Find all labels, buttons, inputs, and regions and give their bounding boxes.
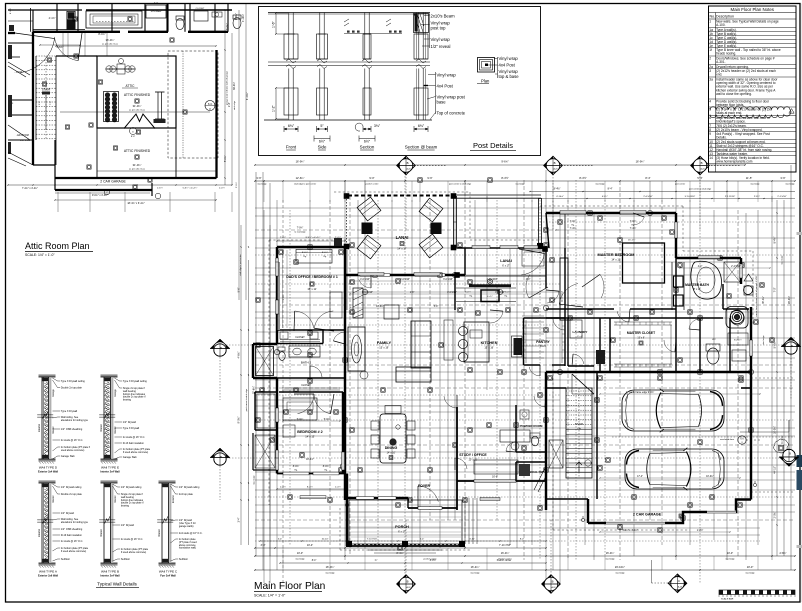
svg-text:Garage: Garage: [114, 388, 117, 396]
svg-text:7'-4¾": 7'-4¾": [280, 236, 286, 239]
svg-text:8'-4½": 8'-4½": [773, 236, 777, 243]
svg-text:www.homereplansite.com: www.homereplansite.com: [716, 160, 753, 164]
svg-text:11'-5": 11'-5": [746, 176, 752, 180]
svg-text:Double 2x top plate: Double 2x top plate: [61, 493, 83, 496]
svg-text:31'-0¾": 31'-0¾": [133, 104, 142, 108]
svg-text:WAll TYPE B: WAll TYPE B: [101, 570, 119, 574]
svg-text:Exterior: Exterior: [172, 495, 175, 503]
svg-text:16'-0¾": 16'-0¾": [606, 552, 615, 555]
svg-text:5'-0¾": 5'-0¾": [324, 418, 331, 421]
svg-text:10'-4⅞": 10'-4⅞": [306, 458, 314, 461]
svg-text:1/2" reveal: 1/2" reveal: [431, 44, 451, 49]
svg-text:8'-4½": 8'-4½": [501, 176, 508, 180]
svg-text:WC: WC: [712, 339, 716, 341]
svg-text:CLOSET: CLOSET: [196, 8, 205, 10]
svg-text:Interior: Interior: [52, 426, 55, 433]
svg-text:6' x 6': 6' x 6': [577, 336, 583, 338]
svg-text:CLOSET: CLOSET: [301, 384, 311, 387]
svg-text:stud edge: stud edge: [253, 475, 256, 485]
svg-text:Interior: Interior: [114, 495, 117, 502]
svg-text:post top: post top: [431, 26, 447, 31]
svg-text:Exterior: Exterior: [38, 424, 41, 432]
svg-text:16'-0¾": 16'-0¾": [774, 426, 777, 434]
svg-text:WAll TYPE A: WAll TYPE A: [39, 570, 58, 574]
svg-text:7'-10 7/16": 7'-10 7/16": [499, 544, 511, 547]
svg-text:stud edge: stud edge: [781, 255, 784, 265]
svg-text:WAll TYPE E: WAll TYPE E: [101, 466, 119, 470]
svg-text:10'-0": 10'-0": [747, 565, 754, 569]
svg-text:14' x 13': 14' x 13': [611, 259, 621, 262]
svg-text:8'-0¾": 8'-0¾": [293, 465, 300, 468]
svg-text:Furr 2x4 Wall: Furr 2x4 Wall: [160, 575, 176, 578]
svg-text:STAIR: STAIR: [575, 422, 583, 426]
svg-text:Double 2x top plate: Double 2x top plate: [61, 387, 83, 390]
svg-text:Type X Drywall ceiling: Type X Drywall ceiling: [61, 380, 85, 383]
svg-text:Rg.: Rg.: [470, 296, 473, 298]
svg-text:8'-4½": 8'-4½": [579, 176, 586, 180]
svg-text:1/2" Drywall ceiling: 1/2" Drywall ceiling: [61, 486, 82, 489]
svg-text:36'-0¾": 36'-0¾": [106, 38, 115, 42]
svg-text:6' x 6': 6' x 6': [540, 345, 547, 348]
svg-text:8'-0¾": 8'-0¾": [323, 465, 330, 468]
svg-text:Garage Slab: Garage Slab: [61, 455, 75, 458]
svg-text:4'-0 9/16": 4'-0 9/16": [360, 279, 370, 281]
svg-text:SCALE BAR: SCALE BAR: [721, 598, 734, 601]
svg-text:1f: 1f: [709, 48, 712, 52]
svg-text:6⅛": 6⅛": [418, 124, 425, 128]
svg-text:8'-0¾": 8'-0¾": [98, 32, 105, 36]
svg-text:14' x 10': 14' x 10': [387, 452, 396, 455]
svg-text:B: B: [407, 580, 409, 584]
svg-text:6'-4¾": 6'-4¾": [487, 295, 493, 298]
svg-text:stud edge: stud edge: [595, 183, 605, 186]
svg-text:Vinyl wrap: Vinyl wrap: [431, 37, 451, 42]
svg-text:3'-0": 3'-0": [154, 3, 159, 5]
svg-text:A-20: A-20: [554, 168, 558, 171]
svg-text:1/2" OSB sheathing: 1/2" OSB sheathing: [61, 428, 83, 431]
svg-text:stud edge: stud edge: [233, 100, 236, 110]
svg-text:8'-4": 8'-4": [608, 188, 613, 191]
svg-text:Rg.: Rg.: [323, 256, 327, 258]
svg-text:POWDER ROOM: POWDER ROOM: [520, 424, 543, 428]
svg-text:4'-0 9/16": 4'-0 9/16": [363, 292, 373, 294]
svg-text:2x studs @ 16" O.C.: 2x studs @ 16" O.C.: [121, 538, 143, 541]
svg-text:..ED ROOM: ..ED ROOM: [16, 134, 29, 137]
svg-text:6'-4¾": 6'-4¾": [505, 291, 511, 294]
svg-text:13'-6¾": 13'-6¾": [376, 305, 384, 308]
svg-text:BATH 2: BATH 2: [301, 361, 312, 365]
svg-text:15' x 11': 15' x 11': [307, 287, 317, 291]
svg-text:14: 14: [709, 156, 713, 160]
svg-text:B: B: [220, 346, 222, 350]
svg-text:8'-0": 8'-0": [131, 136, 136, 138]
svg-text:5'-0": 5'-0": [434, 306, 439, 308]
svg-text:4'-0 9/16": 4'-0 9/16": [400, 279, 410, 281]
svg-text:Rg.: Rg.: [324, 470, 328, 472]
svg-text:SCALE: 1/4" = 1'-0": SCALE: 1/4" = 1'-0": [254, 594, 286, 598]
svg-text:9'-0¾": 9'-0¾": [282, 294, 285, 300]
svg-text:garage walls): garage walls): [179, 525, 194, 528]
svg-text:2x studs @ 16" O.C.: 2x studs @ 16" O.C.: [61, 439, 83, 442]
svg-text:16'-1¾": 16'-1¾": [628, 239, 636, 242]
svg-text:stud edge to post center: stud edge to post center: [294, 183, 317, 186]
svg-text:...OOM: ...OOM: [14, 71, 22, 74]
svg-text:4'-0": 4'-0": [526, 279, 531, 281]
svg-text:6⅛": 6⅛": [288, 124, 295, 128]
svg-text:2x10's Beam: 2x10's Beam: [431, 14, 456, 19]
svg-text:B: B: [407, 161, 409, 165]
svg-text:1'-4¾": 1'-4¾": [335, 486, 341, 489]
svg-text:1'-2": 1'-2": [272, 104, 276, 112]
svg-text:wall to close the opening.: wall to close the opening.: [716, 92, 752, 96]
svg-text:8'-0¾": 8'-0¾": [235, 13, 238, 20]
svg-text:(2) 2x12's header on (2) 2x4 s: (2) 2x12's header on (2) 2x4 studs at ea…: [716, 69, 776, 73]
svg-text:5'-0¾": 5'-0¾": [224, 155, 227, 162]
svg-text:stud edge: stud edge: [605, 558, 615, 561]
svg-text:Garage Slab: Garage Slab: [123, 456, 137, 459]
svg-text:10'-0": 10'-0": [297, 552, 303, 555]
svg-text:5'-6¾" x 4'-4¾": 5'-6¾" x 4'-4¾": [183, 187, 198, 190]
svg-text:10'-0": 10'-0": [727, 552, 733, 555]
svg-text:as per attic truss: as per attic truss: [102, 43, 119, 46]
svg-text:stud edge: stud edge: [725, 558, 735, 561]
svg-text:stud edge: stud edge: [470, 572, 480, 575]
svg-text:B: B: [791, 344, 793, 348]
svg-text:alterations for siding type: alterations for siding type: [61, 419, 89, 422]
svg-text:stud edge to post center: stud edge to post center: [239, 254, 242, 276]
svg-text:4'-1⅞": 4'-1⅞": [9, 8, 12, 14]
svg-text:ATTIC: ATTIC: [126, 84, 136, 88]
svg-text:4x4 Post: 4x4 Post: [437, 84, 454, 89]
svg-text:WAll TYPE D: WAll TYPE D: [39, 466, 58, 470]
svg-text:7'-0¾": 7'-0¾": [570, 220, 577, 223]
svg-text:studs at each end.: studs at each end.: [716, 111, 742, 115]
svg-text:A-20: A-20: [552, 586, 556, 589]
svg-text:3: 3: [709, 69, 711, 73]
svg-text:Interior 2x4 Wall: Interior 2x4 Wall: [100, 471, 120, 474]
svg-text:A-100.: A-100.: [716, 23, 726, 27]
svg-text:4'-0": 4'-0": [698, 266, 703, 268]
svg-text:2x4 top plate: 2x4 top plate: [179, 493, 194, 496]
svg-text:Exterior: Exterior: [38, 529, 41, 537]
svg-text:post corner to stud edge: post corner to stud edge: [245, 388, 248, 411]
svg-text:to stud edge: to stud edge: [294, 231, 306, 234]
svg-text:No.: No.: [710, 15, 716, 19]
svg-text:8'-0¾": 8'-0¾": [322, 251, 328, 254]
svg-text:4: 4: [709, 99, 711, 103]
svg-text:18'-4¾" x 6'-4¾": 18'-4¾" x 6'-4¾": [127, 202, 145, 205]
svg-text:16'-0¾": 16'-0¾": [501, 552, 510, 555]
svg-text:Type X Drywall: Type X Drywall: [123, 427, 140, 430]
svg-text:B: B: [554, 161, 556, 165]
svg-text:4'-10¾": 4'-10¾": [242, 14, 245, 22]
svg-text:2'-0 5/16": 2'-0 5/16": [643, 196, 652, 198]
svg-text:post center to stud edge: post center to stud edge: [449, 183, 472, 186]
svg-text:36'-0¾": 36'-0¾": [233, 82, 236, 90]
svg-text:Interior: Interior: [52, 495, 55, 502]
svg-text:1/2" OSB sheathing: 1/2" OSB sheathing: [61, 528, 83, 531]
svg-text:9'-6": 9'-6": [427, 176, 432, 180]
svg-text:DINING: DINING: [385, 446, 398, 450]
svg-text:Rg.: Rg.: [294, 470, 298, 472]
svg-text:Exterior 2x4 Wall: Exterior 2x4 Wall: [38, 471, 58, 474]
svg-text:14' x 13': 14' x 13': [305, 435, 315, 439]
svg-text:1'-4¾": 1'-4¾": [280, 486, 286, 489]
svg-text:Rg.: Rg.: [303, 256, 307, 258]
svg-text:9'-4": 9'-4": [229, 102, 231, 107]
svg-text:LAUNDRY: LAUNDRY: [572, 330, 588, 334]
svg-text:as per attic truss: as per attic truss: [129, 109, 146, 112]
svg-text:4'-10⅞": 4'-10⅞": [556, 195, 564, 198]
svg-text:Interior 2x4 Wall: Interior 2x4 Wall: [100, 575, 120, 578]
svg-text:1/2" Drywall: 1/2" Drywall: [121, 524, 134, 527]
svg-text:1'-3": 1'-3": [410, 292, 415, 294]
svg-text:Section: Section: [360, 145, 375, 150]
svg-text:A-20: A-20: [701, 168, 705, 171]
svg-text:Post Details: Post Details: [473, 141, 513, 150]
svg-text:4'-6¾": 4'-6¾": [238, 351, 241, 358]
svg-text:2 CAR GARAGE: 2 CAR GARAGE: [633, 513, 662, 517]
svg-text:stud edge: stud edge: [325, 572, 335, 575]
svg-text:A-20: A-20: [678, 585, 682, 588]
svg-text:Interior: Interior: [158, 529, 161, 537]
svg-text:12'-6¾": 12'-6¾": [296, 176, 305, 180]
svg-text:5'-6": 5'-6": [238, 287, 241, 292]
svg-text:4'-10": 4'-10": [469, 538, 475, 540]
svg-text:corner door to frame walls of: corner door to frame walls of garage: [755, 282, 758, 316]
svg-text:8'-4¾" x 4'-4¾": 8'-4¾" x 4'-4¾": [306, 236, 321, 239]
svg-text:Subfloor: Subfloor: [61, 558, 70, 561]
svg-text:Front: Front: [286, 145, 297, 150]
svg-text:4'-4⅞": 4'-4⅞": [49, 17, 56, 20]
svg-text:Section @ beam: Section @ beam: [405, 145, 438, 150]
svg-text:Linen closet: Linen closet: [561, 290, 564, 302]
svg-text:2: 2: [709, 56, 711, 60]
svg-text:stud edge: stud edge: [762, 335, 765, 345]
svg-text:top & base: top & base: [499, 74, 520, 79]
svg-text:Description: Description: [716, 15, 734, 19]
svg-text:Exterior 2x6 Wall: Exterior 2x6 Wall: [38, 575, 58, 578]
svg-text:16'-9¾": 16'-9¾": [296, 160, 305, 164]
svg-text:if used above concrete): if used above concrete): [61, 550, 87, 553]
svg-text:garage door to frame walls of: garage door to frame walls of garage: [226, 70, 229, 105]
svg-text:stud edge: stud edge: [257, 183, 267, 186]
svg-text:8'-4¾": 8'-4¾": [307, 486, 313, 489]
svg-text:SHOWER: SHOWER: [151, 10, 162, 13]
svg-text:MASTER CLOSET: MASTER CLOSET: [627, 331, 655, 335]
svg-text:B: B: [220, 455, 222, 459]
svg-text:Rg.: Rg.: [571, 225, 575, 227]
svg-text:alterations for siding type: alterations for siding type: [61, 521, 89, 524]
svg-text:STAIR: STAIR: [42, 88, 51, 92]
svg-text:10'-4": 10'-4": [307, 544, 313, 547]
svg-text:1'-0": 1'-0": [39, 101, 41, 106]
svg-text:BEDROOM # 2: BEDROOM # 2: [297, 430, 322, 434]
svg-text:7'-0¾": 7'-0¾": [297, 227, 304, 230]
svg-text:6⅞: 6⅞: [208, 102, 213, 106]
svg-text:15' x 19': 15' x 19': [379, 346, 389, 350]
svg-text:B: B: [789, 452, 791, 456]
svg-text:Interior: Interior: [100, 424, 103, 432]
svg-text:3'-0 9/16": 3'-0 9/16": [443, 279, 453, 281]
svg-text:2'-8¾": 2'-8¾": [754, 195, 760, 198]
svg-text:1/2" Drywall: 1/2" Drywall: [61, 512, 74, 515]
svg-text:STUDY / OFFICE: STUDY / OFFICE: [459, 453, 487, 457]
svg-text:4'-10 3/16": 4'-10 3/16": [487, 279, 498, 281]
svg-text:2'-0¾": 2'-0¾": [235, 182, 238, 188]
svg-text:6' x 17': 6' x 17': [502, 265, 510, 268]
svg-text:SCALE: 1/4" = 1'-0": SCALE: 1/4" = 1'-0": [25, 253, 55, 257]
svg-text:overhead door: overhead door: [720, 438, 734, 441]
svg-text:8'-0¾": 8'-0¾": [302, 251, 308, 254]
svg-text:Garage: Garage: [52, 388, 55, 396]
svg-text:post center: post center: [675, 183, 686, 186]
svg-text:Post/c’l corner: Post/c’l corner: [497, 559, 512, 562]
svg-text:A-20: A-20: [407, 586, 411, 589]
svg-text:A-301.: A-301.: [716, 60, 726, 64]
svg-text:base: base: [437, 100, 447, 105]
svg-text:1 - car to frame edge 9'-0¾": 1 - car to frame edge 9'-0¾": [626, 391, 655, 394]
svg-text:7'-4¾": 7'-4¾": [570, 227, 577, 230]
svg-text:3'-6 3/16": 3'-6 3/16": [495, 292, 505, 294]
svg-text:6'-0¾": 6'-0¾": [226, 23, 229, 30]
svg-text:Subfloor: Subfloor: [179, 558, 188, 561]
svg-text:16'-0": 16'-0": [492, 477, 498, 479]
svg-text:10'-10": 10'-10": [322, 538, 329, 540]
svg-text:8'-4¾": 8'-4¾": [396, 552, 403, 555]
svg-text:Side: Side: [318, 145, 327, 150]
svg-text:4x4 Post: 4x4 Post: [499, 63, 516, 68]
svg-text:5'-4¾": 5'-4¾": [774, 341, 777, 348]
svg-text:treads nosing.: treads nosing.: [716, 52, 736, 56]
svg-text:FAMILY: FAMILY: [377, 340, 392, 345]
svg-text:7'-0": 7'-0": [50, 101, 52, 106]
svg-text:2 CAR GARAGE: 2 CAR GARAGE: [100, 180, 126, 184]
svg-text:R-19 batt insulation: R-19 batt insulation: [61, 534, 83, 537]
svg-text:post center to stud edge: post center to stud edge: [689, 188, 712, 191]
svg-text:B: B: [552, 580, 554, 584]
svg-text:1/2" Drywall ceiling: 1/2" Drywall ceiling: [121, 486, 142, 489]
svg-text:ATTIC FINISHED: ATTIC FINISHED: [124, 93, 151, 97]
svg-text:PANTRY: PANTRY: [536, 340, 550, 344]
svg-text:R-13 batt insulation: R-13 batt insulation: [123, 442, 145, 445]
svg-text:1/2" Drywall ceiling: 1/2" Drywall ceiling: [179, 486, 200, 489]
svg-text:2'-0¾": 2'-0¾": [774, 511, 777, 518]
svg-text:stud edge: stud edge: [295, 558, 305, 561]
svg-text:LANAI: LANAI: [396, 235, 409, 240]
svg-text:20'-10¾": 20'-10¾": [615, 565, 625, 569]
svg-text:¾": ¾": [375, 559, 378, 562]
svg-text:2'-8¾": 2'-8¾": [779, 552, 786, 555]
svg-text:stud edge: stud edge: [615, 572, 625, 575]
svg-text:8'-4½": 8'-4½": [554, 187, 561, 191]
svg-text:Rg.: Rg.: [505, 296, 508, 298]
svg-text:4'-6¾": 4'-6¾": [56, 45, 63, 49]
svg-text:28'-0¾": 28'-0¾": [788, 296, 791, 304]
svg-text:as per attic truss: as per attic truss: [129, 168, 146, 171]
svg-text:1/2" Drywall: 1/2" Drywall: [123, 421, 136, 424]
svg-text:17'-4": 17'-4": [637, 476, 643, 478]
svg-text:10'-0¾": 10'-0¾": [706, 475, 714, 478]
svg-text:4'-0 9/16": 4'-0 9/16": [447, 292, 457, 294]
svg-text:stud edge: stud edge: [785, 183, 795, 186]
svg-text:stud edge: stud edge: [781, 435, 784, 445]
svg-text:3⅛": 3⅛": [374, 124, 381, 128]
svg-text:9'-6¾": 9'-6¾": [501, 160, 508, 164]
svg-text:1'-6¾": 1'-6¾": [157, 187, 163, 190]
svg-text:bearing: bearing: [121, 505, 130, 508]
svg-text:Attic Room Plan: Attic Room Plan: [25, 241, 90, 251]
svg-text:Main Floor Plan Notes: Main Floor Plan Notes: [731, 7, 775, 12]
svg-text:7'-4¾": 7'-4¾": [630, 227, 637, 230]
svg-text:ATTIC FINISHED: ATTIC FINISHED: [124, 149, 151, 153]
svg-text:DAD'S OFFICE / BEDROOM # 1: DAD'S OFFICE / BEDROOM # 1: [286, 275, 338, 279]
svg-text:6⅞: 6⅞: [740, 437, 743, 440]
svg-text:16'-4¾": 16'-4¾": [471, 565, 480, 569]
svg-text:end.: end.: [716, 73, 722, 77]
svg-text:3'-4": 3'-4": [238, 517, 241, 522]
svg-text:CLOSET: CLOSET: [295, 336, 305, 339]
svg-text:1'-6": 1'-6": [272, 20, 276, 28]
svg-text:Main Floor Plan: Main Floor Plan: [254, 581, 325, 592]
svg-text:if used above concrete): if used above concrete): [121, 551, 147, 554]
svg-text:6'-4¾": 6'-4¾": [465, 291, 471, 294]
svg-text:2'-4 5/16": 2'-4 5/16": [731, 266, 741, 268]
svg-text:9: 9: [709, 132, 711, 136]
svg-text:Subfloor: Subfloor: [121, 558, 130, 561]
svg-text:6½": 6½": [319, 139, 326, 143]
svg-text:7'-10 7/16": 7'-10 7/16": [367, 538, 378, 540]
svg-text:if used above concrete): if used above concrete): [123, 451, 149, 454]
svg-text:9'-0": 9'-0": [369, 176, 374, 180]
svg-text:44'-10": 44'-10": [774, 466, 777, 474]
svg-text:8'-4": 8'-4": [312, 560, 317, 562]
svg-text:1'-0¾": 1'-0¾": [219, 187, 225, 190]
svg-text:Typical Wall Details: Typical Wall Details: [97, 582, 137, 587]
svg-text:8'-4": 8'-4": [645, 176, 650, 180]
svg-text:5'-2¾" x 4'-4¾": 5'-2¾" x 4'-4¾": [622, 529, 638, 532]
svg-text:Interior: Interior: [114, 426, 117, 433]
svg-text:7'-0¾": 7'-0¾": [630, 220, 637, 223]
svg-text:LANAI: LANAI: [500, 259, 512, 263]
svg-text:2x studs @ 16" O.C.: 2x studs @ 16" O.C.: [123, 436, 145, 439]
svg-text:6½": 6½": [364, 139, 371, 143]
svg-text:7'-0": 7'-0": [774, 287, 777, 292]
svg-text:8'-0": 8'-0": [520, 538, 525, 540]
svg-text:Vinyl wrap: Vinyl wrap: [437, 73, 457, 78]
svg-text:Vinyl wrap: Vinyl wrap: [499, 56, 519, 61]
svg-text:31'-0¾": 31'-0¾": [133, 163, 142, 167]
svg-text:3a: 3a: [709, 77, 713, 81]
svg-text:B: B: [701, 161, 703, 165]
svg-text:used above concrete): used above concrete): [61, 449, 85, 452]
svg-text:A-20: A-20: [407, 168, 411, 171]
svg-text:14' x 17': 14' x 17': [397, 247, 407, 251]
svg-text:MASTER BEDROOM: MASTER BEDROOM: [598, 253, 635, 257]
svg-text:bearing: bearing: [123, 399, 132, 402]
svg-text:stud edge: stud edge: [745, 572, 755, 575]
svg-text:2'-1 11/16": 2'-1 11/16": [725, 196, 735, 198]
svg-text:8'x4'-6¾": 8'x4'-6¾": [734, 339, 742, 342]
svg-text:Top of concrete: Top of concrete: [437, 111, 466, 116]
svg-text:foundation wall): foundation wall): [179, 547, 196, 550]
svg-text:2x studs @ 16" O.C.: 2x studs @ 16" O.C.: [61, 540, 83, 543]
svg-text:Type X Drywall ceiling: Type X Drywall ceiling: [123, 380, 147, 383]
svg-text:2'-1 5/16": 2'-1 5/16": [777, 196, 786, 198]
svg-text:Type X Drywall: Type X Drywall: [61, 410, 78, 413]
svg-text:post/c’l center: post/c’l center: [366, 183, 379, 186]
svg-text:stud edge: stud edge: [750, 183, 760, 186]
